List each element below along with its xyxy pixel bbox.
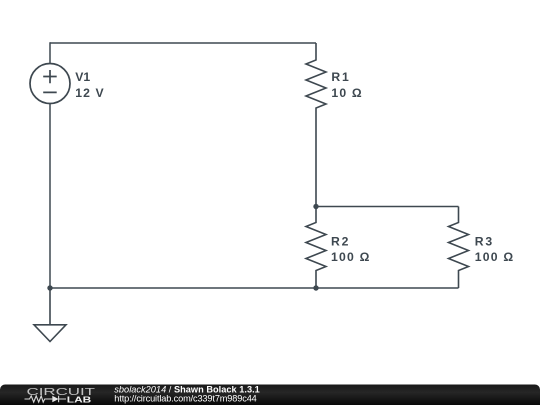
resistor R2: [306, 207, 326, 289]
logo diode triangle: [52, 396, 58, 403]
svg-text:R2: R2: [331, 235, 349, 249]
resistor R3: [449, 207, 469, 289]
logo schematic glyph: [25, 396, 67, 403]
svg-text:100 Ω: 100 Ω: [475, 250, 514, 264]
wire V1 top lead: [49, 42, 51, 63]
wire V1 bottom lead to ground node: [49, 104, 51, 289]
node junction dot at R1/R2/middle wire: [313, 204, 318, 209]
voltage source V1: [30, 64, 70, 104]
svg-text:V1: V1: [75, 70, 90, 84]
svg-text:R1: R1: [331, 70, 349, 84]
svg-text:10 Ω: 10 Ω: [331, 86, 361, 100]
wire middle horizontal (node to R3): [316, 206, 459, 208]
wire top horizontal: [50, 42, 316, 44]
node junction dot at R2 bottom: [313, 285, 318, 290]
svg-text:LAB: LAB: [67, 394, 92, 404]
node junction dot at ground: [47, 285, 52, 290]
resistor R1: [306, 43, 326, 207]
wire bottom horizontal: [50, 287, 459, 289]
ground: [34, 288, 66, 342]
svg-text:R3: R3: [475, 235, 493, 249]
svg-text:12 V: 12 V: [75, 86, 104, 100]
svg-text:100 Ω: 100 Ω: [331, 250, 370, 264]
svg-text:http://circuitlab.com/c339t7m9: http://circuitlab.com/c339t7m989c44: [114, 393, 256, 403]
